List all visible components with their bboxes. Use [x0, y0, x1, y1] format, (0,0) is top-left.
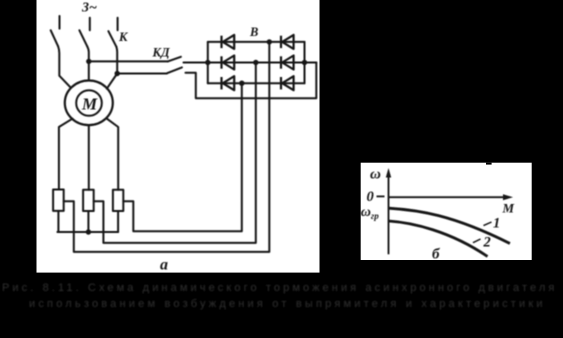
node: right bus row 2 junction [302, 60, 307, 65]
diode VD5 cathode bar [220, 77, 222, 89]
diode VD2 cathode bar [280, 36, 282, 48]
node: row 2 AC tap junction [253, 60, 258, 65]
graph б: torque axis M [389, 196, 505, 198]
svg-text:М: М [81, 95, 98, 114]
svg-text:1: 1 [493, 216, 500, 232]
wire: rotor lead 2 [88, 126, 90, 189]
diode VD6 cathode bar [280, 77, 282, 89]
svg-text:К: К [118, 30, 129, 44]
wire: R1 bottom lead [57, 211, 59, 232]
contactor КД contact 2 blade [167, 67, 182, 73]
rectifier B row 1 rail [208, 41, 305, 43]
wire: rotor lead 1 [59, 119, 73, 190]
svg-text:3~: 3~ [81, 1, 97, 16]
switch K pole 3 blade [108, 31, 116, 47]
node: L2 tap junction [86, 59, 91, 64]
svg-text:В: В [249, 25, 258, 39]
rectifier B right DC bus [304, 42, 306, 83]
wire: R1 tap to rectifier row 1 [64, 42, 270, 252]
diode VD3 [223, 56, 234, 70]
motor M rotor circle [76, 90, 102, 116]
svg-text:а: а [160, 257, 168, 274]
node: left bus row 2 junction [205, 60, 210, 65]
svg-text:использованием возбуждения от: использованием возбуждения от выпрямител… [29, 298, 546, 310]
wire: L3 switch down to node [115, 47, 118, 74]
rectifier B row 3 rail [208, 82, 305, 84]
wire: R3 bottom lead [117, 211, 119, 232]
svg-text:КД: КД [152, 46, 170, 60]
curve 2 (braking characteristic) [389, 221, 488, 257]
leader to label 1 [484, 222, 492, 226]
wire: rotor lead 3 [107, 119, 118, 190]
wire: star-point bus [57, 231, 118, 233]
contactor КД contact 2 feed wire [117, 73, 167, 75]
diode VD2 [282, 35, 293, 49]
axis arrowhead up [386, 168, 391, 178]
contactor КД contact 1 feed wire [89, 60, 168, 62]
label 0 dash [377, 195, 385, 197]
diode VD5 [223, 76, 234, 90]
diode VD6 [282, 76, 293, 90]
contactor КД contact 1 blade [168, 57, 181, 62]
white page area (schematic) [37, 0, 320, 273]
axis arrowhead right [503, 194, 513, 200]
wire: L2 switch to motor stator [87, 46, 89, 79]
switch K pole 2 blade [79, 30, 87, 46]
svg-text:2: 2 [483, 235, 491, 251]
white panel (graph) [361, 163, 532, 260]
leader to label 2 [473, 239, 481, 243]
node: star point junction [86, 229, 91, 234]
graph б: speed axis ω [377, 171, 505, 254]
wire: L3 node to motor stator [107, 74, 117, 89]
svg-text:Рис. 8.11. Схема динамического: Рис. 8.11. Схема динамического торможени… [2, 282, 563, 294]
wire: КД2 to rectifier DC+ loop [186, 63, 317, 99]
wire: phase L3 supply tick [117, 18, 119, 31]
node: L3 tap junction [115, 71, 120, 76]
svg-text:б: б [432, 247, 440, 263]
svg-text:ω: ω [370, 167, 381, 183]
svg-text:М: М [502, 201, 515, 216]
resistor R2 [83, 190, 94, 211]
switch K pole 1 blade [51, 30, 58, 46]
node: row 1 AC tap junction [267, 39, 272, 44]
node: row 3 AC tap junction [239, 81, 244, 86]
diode VD1 [223, 35, 234, 49]
diode VD4 cathode bar [280, 56, 282, 68]
resistor R1 [53, 190, 64, 211]
diode VD1 cathode bar [220, 36, 222, 48]
svg-text:0: 0 [367, 189, 374, 205]
scan notch on graph panel top edge [486, 163, 492, 165]
diode VD3 cathode bar [220, 56, 222, 68]
rectifier B row 2 rail [184, 62, 317, 64]
resistor R3 [113, 190, 123, 211]
curve 1 (braking characteristic) [389, 208, 510, 243]
wire: phase L1 supply tick [59, 16, 61, 29]
wire: R2 bottom lead [87, 211, 89, 232]
diode VD4 [282, 56, 293, 70]
wire: R3 tap to rectifier row 3 [123, 83, 242, 231]
rectifier B left DC bus [207, 42, 209, 83]
wire: phase L2 supply tick [89, 18, 91, 31]
wire: L1 switch to motor stator [58, 46, 71, 88]
motor M stator circle [65, 81, 113, 126]
wire: R2 tap to rectifier row 2 [94, 63, 256, 243]
